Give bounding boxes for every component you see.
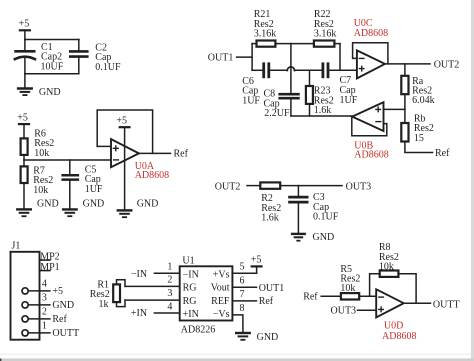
pin 3 (GND) [22,293,74,311]
pin 5 wire (+Vs) [232,262,256,274]
pin 7 wire (REF to Ref) [232,289,273,307]
window edge bottom band [0,358,474,361]
svg-text:3: 3 [42,293,47,304]
resistor R22 [291,9,340,47]
wire U0D output [404,302,431,304]
svg-text:4: 4 [42,279,47,290]
node 1 (junction R21/C6) [251,44,253,71]
power flag +5 (divider) [17,113,30,139]
resistor R6 [21,128,55,160]
svg-text:Ref: Ref [303,292,318,303]
svg-text:10k: 10k [340,283,355,294]
corner mark bottom-left [0,359,1,361]
svg-text:GND: GND [313,232,335,243]
svg-text:AD8608: AD8608 [354,150,388,161]
svg-text:−IN: −IN [131,269,147,280]
svg-text:1UF: 1UF [242,95,260,106]
capacitor C8 [264,89,300,120]
svg-text:+5: +5 [17,113,28,124]
svg-text:+IN: +IN [183,309,199,320]
net +IN (pin 4 wire) [131,302,180,320]
ground (U0A supply) [117,199,159,218]
svg-text:J1: J1 [12,241,21,252]
resistor Ra [401,64,434,123]
svg-text:REF: REF [211,296,230,307]
resistor R1 [90,280,125,310]
svg-text:7: 7 [240,289,245,300]
svg-text:0.1UF: 0.1UF [313,212,339,223]
op-amp U0D [376,289,416,342]
svg-text:AD8226: AD8226 [181,325,215,336]
svg-text:+5: +5 [116,116,127,127]
svg-text:4: 4 [167,302,172,313]
svg-text:15: 15 [414,133,424,144]
svg-text:OUT1: OUT1 [208,52,234,63]
svg-text:+5: +5 [251,254,262,265]
wire U0A output to Ref [139,152,171,154]
svg-text:Ref: Ref [52,314,67,325]
svg-text:6.04k: 6.04k [412,95,435,106]
svg-text:5: 5 [240,262,245,273]
svg-text:RG: RG [183,296,197,307]
wire U0B + input to Ra/Rb node [384,108,405,110]
op-amp U0A [111,139,169,181]
pin 6 wire (Vout to OUT1) [232,276,284,294]
resistor R8 (feedback) [370,242,417,303]
ground (U1 -Vs) [235,332,278,343]
pin 1 (OUTT) [22,321,79,339]
capacitor C1 [14,40,64,74]
svg-text:1.6k: 1.6k [261,213,279,224]
svg-text:10k: 10k [34,148,49,159]
pin 4 (+5) [22,279,63,297]
svg-text:AD8608: AD8608 [382,331,416,342]
svg-text:OUT2: OUT2 [434,59,460,70]
pin 8 wire (-Vs to ground) [232,303,244,332]
svg-text:GND: GND [39,87,61,98]
power flag +5 (decoupling rail) [19,18,31,39]
svg-text:Ref: Ref [259,296,274,307]
svg-text:+Vs: +Vs [213,269,230,280]
wire OUT1 to node1 [237,56,253,58]
in-amp U1 AD8226 [180,255,233,335]
wire feedback bottom rail to U0B output [291,115,352,117]
svg-text:1UF: 1UF [85,184,103,195]
svg-text:GND: GND [37,199,59,210]
op-amp U0B [352,102,389,160]
wire U0C output to OUT2 [385,63,430,65]
svg-text:0.1UF: 0.1UF [95,62,121,73]
pin 3 wire (RG) [125,288,180,300]
capacitor C6 [242,62,269,106]
svg-text:10k: 10k [379,261,394,272]
svg-text:OUTT: OUTT [52,328,79,339]
resistor Rb [401,114,434,153]
capacitor C3 [288,186,339,233]
node wire (divider to U0A - input) [24,159,111,161]
svg-text:2: 2 [42,307,47,318]
svg-text:GND: GND [83,199,105,210]
svg-text:8: 8 [240,303,245,314]
ground (C3) [291,232,334,243]
power flag +5 (U0A supply) [116,116,130,128]
svg-text:AD8608: AD8608 [354,28,388,39]
wire hop to C7 (junction R23) [295,69,322,71]
wire U0A supply rail through body [124,128,126,210]
svg-text:OUT1: OUT1 [259,283,285,294]
wire to ground [24,74,26,88]
svg-text:MP2: MP2 [40,251,59,262]
pin MP1 [40,262,60,273]
capacitor C5 [61,160,103,209]
resistor R7 [21,160,54,209]
pin 2 wire (RG) [125,275,180,287]
svg-text:OUT3: OUT3 [346,181,372,192]
wire C6 to hop [270,69,287,71]
svg-text:+IN: +IN [131,308,147,319]
window edge bottom faint rule [0,354,471,355]
ground (C1/C2) [17,87,61,98]
svg-text:OUT3: OUT3 [331,306,357,317]
net OUT3 (U0D + input) [331,306,377,317]
resistor R23 [306,70,334,116]
wire hop over node2 [287,67,294,71]
svg-text:−IN: −IN [183,269,199,280]
svg-text:2: 2 [167,275,172,286]
ground (R7) [16,199,59,217]
svg-text:GND: GND [257,332,279,343]
net -IN (pin 1 wire) [131,262,180,281]
wire C7 to U0C + input [329,69,357,71]
wire U0C - input feedback loop [353,43,388,64]
svg-text:3.16k: 3.16k [314,29,337,40]
capacitor C7 [323,62,358,105]
svg-text:3.16k: 3.16k [254,29,277,40]
svg-text:+5: +5 [52,286,63,297]
ground (C5) [62,199,104,217]
svg-text:U0D: U0D [384,321,403,332]
node 3 (R22 to C7 junction) [339,44,341,71]
window edge right [471,0,474,361]
svg-text:Ref: Ref [435,148,450,159]
svg-text:10UF: 10UF [41,61,64,72]
pin 2 (Ref) [22,307,68,325]
svg-text:6: 6 [240,276,245,287]
svg-text:MP1: MP1 [40,262,59,273]
resistor R21 [252,9,291,47]
resistor R2 [247,182,342,223]
svg-text:1: 1 [167,262,172,273]
power flag +5 (U1 supply) [251,254,263,273]
svg-text:GND: GND [52,300,74,311]
op-amp U0C [354,18,388,78]
svg-text:OUTT: OUTT [433,300,460,311]
svg-text:RG: RG [183,283,197,294]
capacitor C2 [69,40,121,74]
wire U0A + input [97,145,111,147]
wire node2 vertical (R21/R22 junction down to C8, crosses main wire) [290,44,292,93]
svg-text:10k: 10k [33,185,48,196]
svg-text:OUT2: OUT2 [215,181,241,192]
svg-text:1: 1 [42,321,47,332]
svg-text:U1: U1 [182,255,194,266]
svg-text:1UF: 1UF [340,95,358,106]
svg-text:+5: +5 [19,18,30,29]
svg-text:2.2UF: 2.2UF [264,108,290,119]
svg-text:1.6k: 1.6k [314,105,332,116]
svg-text:−Vs: −Vs [213,309,230,320]
svg-text:3: 3 [167,288,172,299]
svg-text:GND: GND [137,199,159,210]
connector J1 [11,241,40,340]
wire U0A feedback loop (output to + input) [97,110,152,153]
wire bottom rail C1-C2 [25,73,79,75]
wire top rail C1-C2 [25,39,79,41]
resistor R5 [321,264,376,300]
svg-text:Ref: Ref [174,149,189,160]
svg-text:Vout: Vout [211,283,230,294]
svg-text:1k: 1k [99,299,109,310]
wire U0B - input feedback loop [352,117,387,136]
svg-text:AD8608: AD8608 [135,170,169,181]
pin MP2 [40,251,60,262]
